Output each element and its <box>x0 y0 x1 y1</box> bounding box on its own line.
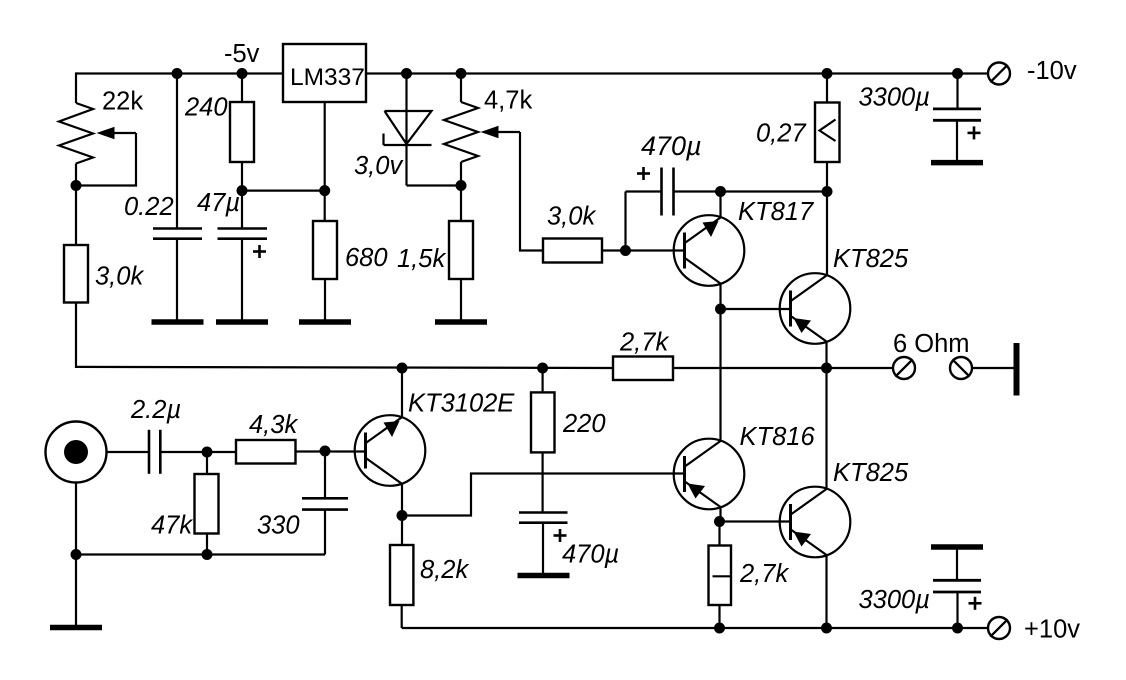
label KT825 lower <box>833 459 909 487</box>
node 3.0k out / 470u <box>620 245 631 256</box>
wire top rail left segment <box>76 72 284 74</box>
ground under 47µ <box>216 319 268 325</box>
label 3300µ upper <box>859 84 930 112</box>
wire 0.27 to node <box>826 162 828 192</box>
wire rail to 0.27 <box>826 74 828 103</box>
node bottom rail / 2.7k <box>714 623 725 634</box>
resistor 47k <box>195 474 219 534</box>
wire mid rail left segment <box>76 367 613 368</box>
svg-text:470µ: 470µ <box>562 541 619 569</box>
node LM337 adj / 680 <box>319 185 330 196</box>
wire KT816 base wire <box>402 474 684 516</box>
svg-text:3,0v: 3,0v <box>354 152 403 180</box>
label 240 <box>184 94 228 122</box>
ground under 3300µ upper <box>931 160 983 166</box>
polarity + of 47µ <box>253 245 266 258</box>
wire 2.7k to bottom rail <box>718 605 720 628</box>
wire KT3102E emitter <box>401 484 403 516</box>
label -10v <box>1027 57 1077 85</box>
wire -10v rail to 22k <box>75 72 77 103</box>
wire 22k wiper loop <box>76 133 136 186</box>
wire node to 8.2k <box>401 516 403 546</box>
svg-text:0,27: 0,27 <box>756 120 806 148</box>
terminal +10v <box>988 617 1010 639</box>
svg-text:680: 680 <box>345 244 388 272</box>
label 2.2µ <box>130 396 181 424</box>
node input lower rail / input <box>71 549 82 560</box>
ground under 680 <box>299 319 351 325</box>
input connector <box>46 422 107 483</box>
label KT3102E <box>408 390 515 418</box>
regulator LM337 <box>283 44 366 102</box>
svg-text:1,5k: 1,5k <box>397 245 446 273</box>
svg-text:47k: 47k <box>151 512 193 540</box>
wire 220 to 470u lower <box>541 452 543 512</box>
svg-text:8,2k: 8,2k <box>420 556 469 584</box>
wire 4.3k to KT3102E base <box>296 450 366 452</box>
wire 470u to 0.27 node <box>674 190 828 192</box>
wire 330 bottom <box>324 510 326 555</box>
wire 3300u to ground <box>956 120 958 160</box>
wire rail to diode <box>405 74 407 146</box>
ground under input <box>50 625 102 631</box>
node input lower rail / 47k <box>202 549 213 560</box>
transistor KT825 upper <box>780 273 851 344</box>
wire input to 2.2u <box>107 451 150 453</box>
transistor KT3102E <box>355 415 426 486</box>
label KT817 <box>738 198 814 226</box>
wire output terminal to speaker bar <box>973 367 1014 369</box>
wire 47k top <box>206 452 208 474</box>
wire KT817 collector <box>719 192 721 218</box>
label 2,7k horizontal <box>619 329 669 357</box>
wire rail to 0.22 cap <box>176 74 178 229</box>
label 3,0k mid <box>547 203 596 231</box>
node junction top rail / 3300u branch <box>952 68 963 79</box>
wire mid rail to 220 <box>541 368 543 392</box>
svg-text:3300µ: 3300µ <box>859 586 930 614</box>
terminal output right <box>950 357 972 379</box>
node 0.27 / KT825 top <box>822 186 833 197</box>
capacitor 3300µ upper <box>933 109 981 120</box>
svg-text:4,3k: 4,3k <box>249 411 298 439</box>
wire 0.22 to ground <box>176 239 178 320</box>
svg-text:22k: 22k <box>102 88 143 116</box>
transistor KT825 lower <box>780 487 851 558</box>
label 680 <box>345 244 388 272</box>
label 2,7k vertical <box>739 560 789 588</box>
svg-text:LM337: LM337 <box>290 64 365 91</box>
label 0.22 <box>124 193 174 221</box>
wire 47k bottom <box>206 534 208 555</box>
wire KT825 upper collector <box>826 192 828 276</box>
label 3300µ lower <box>859 586 930 614</box>
node KT3102E emitter / 8.2k <box>397 510 408 521</box>
wire KT816 collector <box>719 309 721 441</box>
svg-text:2.2µ: 2.2µ <box>130 396 181 424</box>
wire 3300u lower to bottom rail <box>956 592 958 628</box>
node KT816 emitter / 2.7k / KT825 base <box>714 516 725 527</box>
label 8,2k <box>420 556 469 584</box>
label KT825 upper <box>833 245 909 273</box>
node bottom rail / 3300u <box>952 623 963 634</box>
wire rail to 3300u upper <box>956 74 958 109</box>
svg-text:3300µ: 3300µ <box>859 84 930 112</box>
svg-text:470µ: 470µ <box>641 131 702 161</box>
wire 2.2u to 4.3k <box>160 451 236 453</box>
node 2.2u / 47k <box>202 447 213 458</box>
svg-text:3,0k: 3,0k <box>95 263 144 291</box>
wiper arrow of 4,7k <box>481 126 521 138</box>
node KT817 emitter / KT816 collector / KT825 base <box>715 304 726 315</box>
wire 3.0k to KT817 base <box>602 249 685 251</box>
svg-text:4,7k: 4,7k <box>484 87 532 115</box>
wire node up to 470u <box>626 192 662 251</box>
wire KT817 emitter <box>719 284 721 310</box>
svg-text:47µ: 47µ <box>197 189 240 217</box>
wire 1.5k to ground <box>460 279 462 320</box>
terminal -10v <box>988 63 1010 85</box>
transistor KT816 <box>674 439 745 510</box>
ground under 1,5k <box>435 319 487 325</box>
capacitor 47µ <box>218 229 268 239</box>
wire 8.2k to bottom rail <box>401 605 403 628</box>
resistor 4,3k <box>236 440 296 464</box>
label KT816 <box>740 423 816 451</box>
wire node to LM337 adj node <box>242 190 325 192</box>
resistor 3,0k mid <box>543 239 602 263</box>
wire KT825 upper emitter <box>825 342 827 369</box>
capacitor 470µ upper <box>662 168 674 216</box>
ground bar above 3300µ lower <box>931 544 983 550</box>
node junction top rail / diode branch <box>401 68 412 79</box>
wire top rail right segment <box>365 72 989 74</box>
wire LM337 adj pin <box>324 102 326 221</box>
terminal output left <box>893 357 915 379</box>
polarity + of 3300µ lower <box>969 597 982 610</box>
capacitor 470µ lower <box>519 513 568 523</box>
wire KT825 lower emitter <box>825 555 827 628</box>
svg-text:+10v: +10v <box>1024 616 1080 644</box>
label +10v <box>1024 616 1080 644</box>
resistor 3,0k left <box>64 245 88 303</box>
node 4.3k / 330 <box>320 446 331 457</box>
capacitor 3300µ lower <box>933 580 981 592</box>
wire input to ground <box>75 555 77 626</box>
polarity + of 470µ upper <box>637 167 650 180</box>
svg-text:KT825: KT825 <box>833 245 909 273</box>
svg-text:220: 220 <box>562 410 606 438</box>
wire 22k bottom to node <box>75 164 77 246</box>
wire 47u to ground <box>241 239 243 320</box>
label 47µ <box>197 189 240 217</box>
transistor KT817 <box>674 215 745 286</box>
wire KT816 emitter <box>719 507 721 522</box>
svg-text:330: 330 <box>257 512 300 540</box>
potentiometer 4,7k <box>444 102 478 162</box>
node junction top rail / 240 branch <box>237 68 248 79</box>
node bottom rail / KT825 emitter <box>821 623 832 634</box>
resistor 220 <box>531 392 555 452</box>
svg-text:240: 240 <box>184 94 228 122</box>
wire 680 to ground <box>324 279 326 320</box>
label 3,0v <box>354 152 403 180</box>
svg-text:KT816: KT816 <box>740 423 816 451</box>
resistor 8,2k <box>390 545 413 605</box>
node 4.7k / diode / 1.5k <box>456 180 467 191</box>
wire node to 2.7k vertical <box>718 522 720 546</box>
potentiometer 22k <box>59 103 93 164</box>
node mid rail / KT825 branch <box>821 363 832 374</box>
wire ground to 3300u lower <box>956 547 958 580</box>
wire 4.7k bottom <box>460 162 462 221</box>
wire input connector to lower rail <box>75 483 77 555</box>
diode 3,0v cathode bar <box>384 134 432 146</box>
label 22k <box>102 88 143 116</box>
resistor 680 <box>313 221 337 279</box>
wire node to KT825 upper base <box>721 308 791 310</box>
node 470u / KT817 collector <box>715 186 726 197</box>
svg-text:-5v: -5v <box>224 40 260 68</box>
wire 240 to 47u <box>241 162 243 228</box>
label 6 Ohm <box>893 330 970 358</box>
speaker terminal bar <box>1014 343 1020 396</box>
wire KT3102E collector <box>401 368 403 418</box>
ground under 470µ lower <box>518 573 570 579</box>
resistor 1,5k <box>449 221 473 279</box>
resistor 240 <box>230 102 254 162</box>
label 4,7k <box>484 87 532 115</box>
resistor 0,27 <box>815 103 840 163</box>
node mid rail / KT3102E collector <box>397 363 408 374</box>
wire node to KT825 lower base <box>720 520 791 522</box>
wire 4.7k wiper to 3.0k <box>520 132 543 251</box>
label 0,27 <box>756 120 806 148</box>
capacitor 2.2µ <box>149 430 160 474</box>
wire rail to 4.7k <box>460 74 462 103</box>
node 240 / LM337 adj <box>237 185 248 196</box>
label 47k <box>151 512 193 540</box>
node junction top rail / 0.22 branch <box>172 68 183 79</box>
wire diode to node <box>407 145 462 186</box>
resistor 2,7k horizontal <box>613 357 673 381</box>
wiper arrow of 22k <box>97 127 137 139</box>
node mid rail / 220 branch <box>537 363 548 374</box>
wire 470u lower to ground <box>542 523 544 573</box>
label 470µ lower <box>562 541 619 569</box>
wire input lower rail <box>76 553 325 555</box>
svg-text:KT825: KT825 <box>833 459 909 487</box>
label 1,5k <box>397 245 446 273</box>
capacitor 330 <box>302 498 348 509</box>
label 220 <box>562 410 606 438</box>
wire mid rail right segment <box>673 367 893 369</box>
svg-text:KT3102E: KT3102E <box>408 390 515 418</box>
svg-text:-10v: -10v <box>1027 57 1077 85</box>
node junction top rail / 4.7k branch <box>456 68 467 79</box>
label 3,0k left <box>95 263 144 291</box>
wire 3.0k to mid rail <box>75 303 77 369</box>
wire rail to 240 <box>241 74 243 103</box>
label 4,3k <box>249 411 298 439</box>
node junction top rail / 0.27 branch <box>822 68 833 79</box>
node 22k / wiper / 3.0k <box>71 180 82 191</box>
label 470µ upper <box>641 131 702 161</box>
polarity + of 3300µ upper <box>968 126 981 139</box>
wire bottom rail <box>402 627 989 629</box>
svg-text:KT817: KT817 <box>738 198 814 226</box>
label 330 <box>257 512 300 540</box>
label -5v <box>224 40 260 68</box>
polarity + of 470µ lower <box>554 529 567 542</box>
wire 330 top <box>324 451 326 498</box>
svg-text:3,0k: 3,0k <box>547 203 596 231</box>
svg-text:0.22: 0.22 <box>124 193 174 221</box>
wire KT825 lower collector <box>825 368 827 489</box>
capacitor 0.22 <box>153 229 202 239</box>
ground under 0.22 <box>152 319 204 325</box>
svg-text:2,7k: 2,7k <box>619 329 669 357</box>
svg-text:2,7k: 2,7k <box>739 560 789 588</box>
svg-text:6 Ohm: 6 Ohm <box>893 330 970 358</box>
diode 3,0v triangle <box>385 111 432 144</box>
resistor 2,7k vertical <box>709 546 732 606</box>
